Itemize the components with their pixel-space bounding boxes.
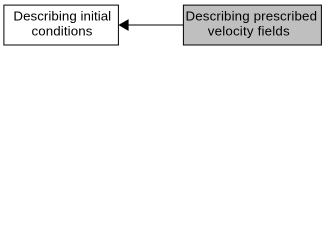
- edge: arrow from grey box to white box: [119, 20, 183, 31]
- node: Describing prescribed velocity fields (grey box, current): [183, 5, 321, 45]
- svg-text:Describing prescribed: Describing prescribed: [185, 9, 317, 24]
- svg-text:Describing initial: Describing initial: [13, 9, 111, 24]
- svg-text:conditions: conditions: [31, 24, 92, 39]
- background: [0, 0, 328, 51]
- node: Describing initial conditions (white box): [4, 5, 119, 45]
- svg-text:velocity fields: velocity fields: [208, 24, 290, 39]
